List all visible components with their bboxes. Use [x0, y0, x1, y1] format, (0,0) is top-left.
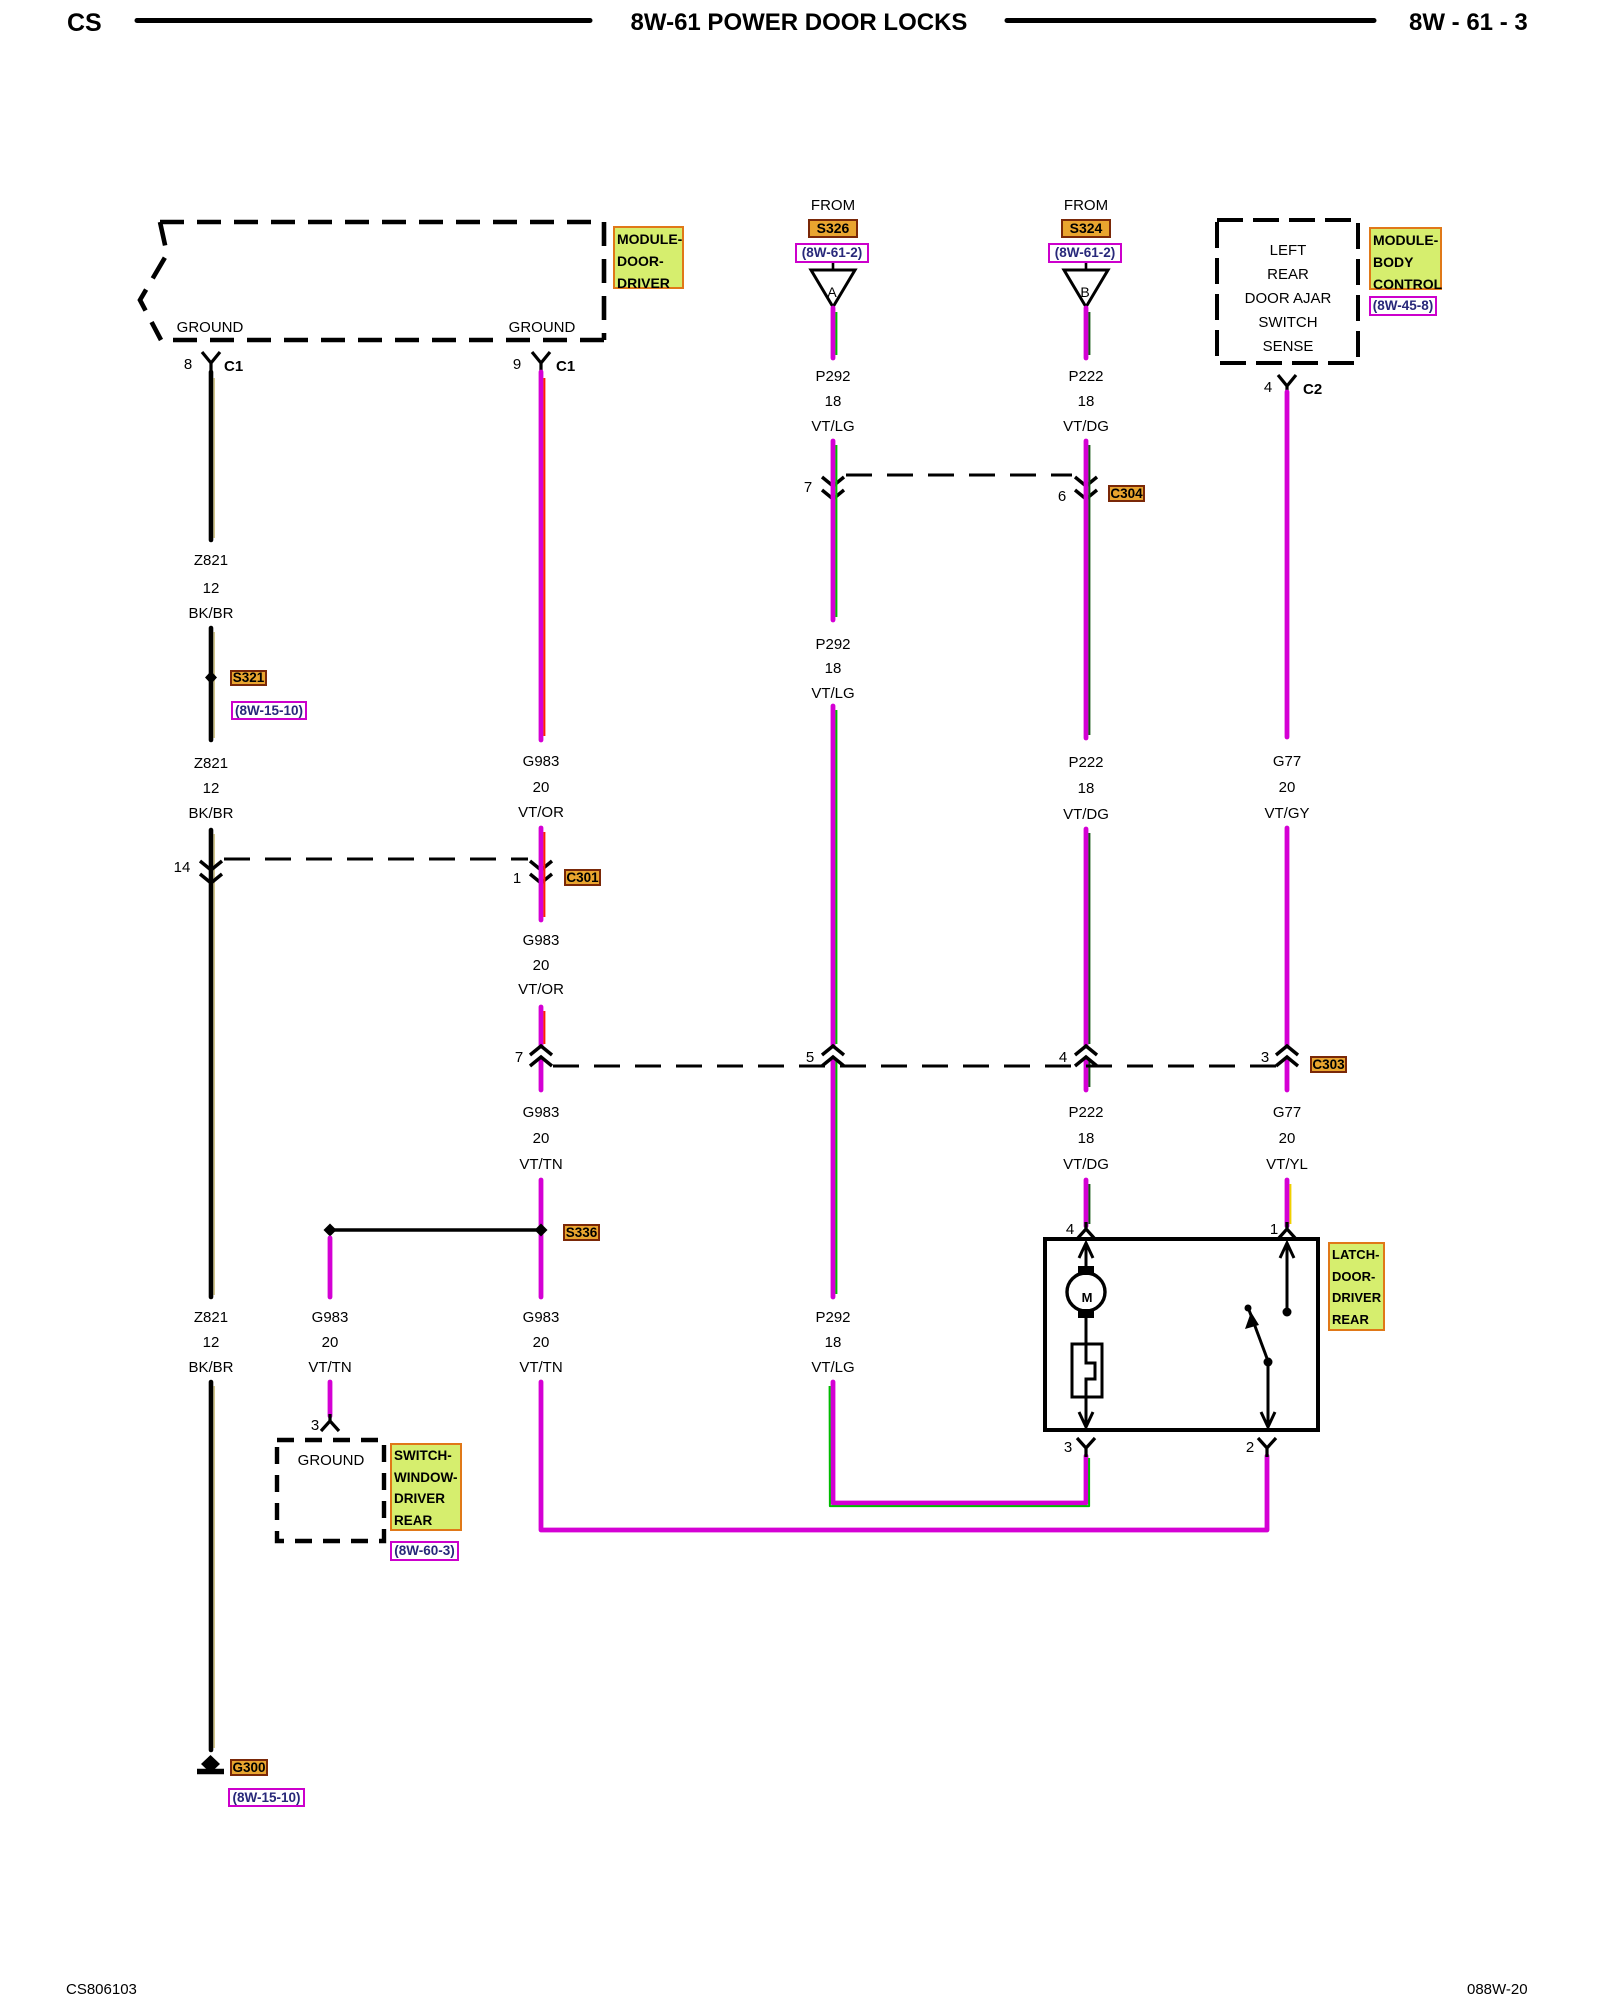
switch window page ref — [390, 1541, 459, 1561]
motor to thermal element wire — [1085, 1318, 1088, 1344]
wire G983 VT/OR pin9 down — [539, 372, 544, 740]
wire label G77 group1 — [1273, 754, 1301, 770]
wire G983 VT/OR through C301 — [539, 828, 544, 920]
latch pin 4 number — [1066, 1222, 1074, 1238]
wire P222 label to C303 — [1084, 829, 1089, 1090]
connector C303 pin4 chevrons — [1075, 1046, 1097, 1066]
FROM S326 text — [811, 198, 855, 214]
wire label G983 group1 — [523, 754, 560, 770]
wire P222 C304 to label — [1084, 441, 1089, 738]
header page number — [1409, 10, 1528, 35]
wire label G983 group3 — [523, 1105, 560, 1121]
wire label Z821 group2 — [194, 756, 228, 772]
module door driver dashed box — [140, 222, 604, 340]
wire label P292 group2 — [815, 637, 850, 653]
wire G77 VT/YL to latch pin1 — [1285, 1180, 1290, 1226]
ground G300 symbol — [201, 1755, 220, 1773]
connector 14 chevrons — [200, 861, 222, 883]
connector C304 pin7 number — [804, 480, 812, 496]
dashed line connector C304 — [846, 474, 1072, 477]
module body control label — [1369, 227, 1442, 290]
wire Z821 below label to S321 splice — [209, 628, 214, 740]
wire P292 label to C303 — [831, 706, 836, 1297]
wire label P222 group2 — [1068, 755, 1103, 771]
wire label P222 group1 — [1068, 369, 1103, 385]
connector C303 pin7 chevrons — [530, 1046, 552, 1066]
wire label G77 group2 — [1273, 1105, 1301, 1121]
motor M top terminal — [1078, 1266, 1094, 1275]
connector C304 label — [1108, 485, 1145, 502]
splice S321 label — [230, 670, 267, 686]
S324 label — [1061, 219, 1111, 238]
footer right — [1467, 1982, 1528, 1998]
triangle A from S326 — [832, 262, 835, 270]
latch switch to pin2 arrow down — [1261, 1362, 1275, 1427]
body control box text — [1270, 243, 1307, 259]
connector C303 pin4 number — [1059, 1050, 1067, 1066]
connector C301 pin1 number — [513, 871, 521, 887]
footer left — [66, 1982, 137, 1998]
connector pin 9 C1 symbol — [532, 352, 550, 373]
header rule left — [137, 18, 590, 23]
triangle A letter — [827, 284, 836, 300]
splice S336 bar — [330, 1228, 541, 1231]
wire G983 VT/TN to splice S336 — [539, 1180, 544, 1297]
wire label P292 group3 — [815, 1310, 850, 1326]
wire label Z821 group1 — [194, 553, 228, 569]
module body control dashed box — [1217, 220, 1358, 363]
pin 9 C1 — [556, 359, 575, 375]
header rule right — [1007, 18, 1374, 23]
latch pin1 internal line arrow up — [1280, 1243, 1294, 1310]
connector 14 number — [174, 860, 191, 876]
connector C303 pin3 number — [1261, 1050, 1269, 1066]
connector C304 pin6 number — [1058, 489, 1066, 505]
S326 page ref — [795, 243, 869, 263]
latch pin 1 connector symbol — [1278, 1222, 1296, 1239]
latch switch pivot dot — [1264, 1358, 1273, 1367]
motor M circle — [1067, 1273, 1105, 1311]
pin 8 number — [184, 357, 192, 373]
wire Z821 to connector 14 — [209, 830, 214, 1297]
wire label P292 group1 — [815, 369, 850, 385]
wire label P222 group3 — [1068, 1105, 1103, 1121]
wire G983 VT/TN S336 to pin2 latch — [541, 1382, 1267, 1530]
thermal protector internal step — [1086, 1344, 1095, 1397]
wire P292 to latch pin3 — [833, 1382, 1086, 1503]
G300 page ref — [228, 1788, 305, 1807]
motor M bottom terminal — [1078, 1309, 1094, 1318]
latch pin 3 number — [1064, 1440, 1072, 1456]
latch pin 2 connector symbol — [1258, 1438, 1276, 1457]
S326 label — [808, 219, 858, 238]
wire label Z821 group3 — [194, 1310, 228, 1326]
wire G983 VT/OR to C303 — [539, 1007, 544, 1090]
pin C2 label — [1303, 382, 1322, 398]
header title — [631, 10, 968, 35]
latch pin 2 number — [1246, 1440, 1254, 1456]
wire G983 branch below S336 — [328, 1238, 333, 1297]
motor letter M — [1082, 1290, 1093, 1306]
latch door driver rear label — [1328, 1242, 1385, 1331]
connector C301 pin1 chevrons — [530, 861, 552, 883]
connector C304 pin7 chevrons — [822, 477, 844, 499]
window switch pin 3 number — [311, 1418, 319, 1434]
wire label G983 group4 — [523, 1310, 560, 1326]
connector C303 label — [1310, 1056, 1347, 1073]
wire Z821 to ground G300 — [209, 1382, 214, 1750]
pin 9 number — [513, 357, 521, 373]
S321 page ref — [231, 701, 307, 720]
wire P292 stub below triangle A — [831, 308, 836, 358]
splice S336 diamond right — [535, 1224, 548, 1237]
window switch ground text — [298, 1453, 365, 1469]
latch motor branch arrow up — [1079, 1243, 1093, 1267]
dashed line connector C301 — [224, 858, 528, 861]
triangle B letter — [1080, 284, 1089, 300]
switch window driver rear label — [390, 1443, 462, 1531]
dashed line connector C303 — [553, 1065, 1282, 1068]
thermal protector box — [1072, 1344, 1102, 1397]
wire Z821 pin8 to splice S321 — [209, 372, 214, 540]
module body control page ref — [1369, 296, 1437, 316]
S324 page ref — [1048, 243, 1122, 263]
FROM S324 text — [1064, 198, 1108, 214]
wire P292 C304 to label — [831, 441, 836, 620]
ground text right — [509, 320, 576, 336]
latch switch blade — [1249, 1310, 1268, 1361]
latch pin1 contact dot — [1283, 1308, 1292, 1317]
connector C303 pin5 chevrons — [822, 1046, 844, 1066]
wire label G983 branch — [312, 1310, 349, 1326]
wire label G983 group2 — [523, 933, 560, 949]
pin 8 C1 — [224, 359, 243, 375]
connector pin 4 C2 symbol — [1278, 375, 1296, 395]
connector C303 pin7 number — [515, 1050, 523, 1066]
pin 4 C2 number — [1264, 380, 1272, 396]
latch pin 3 connector symbol — [1077, 1438, 1095, 1457]
latch motor branch arrow down — [1079, 1397, 1093, 1427]
splice S336 label — [563, 1224, 600, 1241]
triangle B from S324 — [1085, 262, 1088, 270]
ground G300 label — [230, 1759, 268, 1776]
latch pin 4 connector symbol — [1077, 1222, 1095, 1239]
splice S336 diamond left — [324, 1224, 337, 1237]
header CS — [67, 10, 102, 36]
latch pin 1 number — [1270, 1222, 1278, 1238]
connector C303 pin3 chevrons — [1276, 1046, 1298, 1066]
switch window driver rear dashed ground box — [277, 1440, 384, 1541]
latch door driver rear box — [1045, 1239, 1318, 1430]
connector C304 pin6 chevrons — [1075, 477, 1097, 499]
connector pin 8 C1 symbol — [202, 352, 220, 373]
wire G77 VT/GY to C303 — [1285, 828, 1290, 1090]
module door driver label — [613, 226, 684, 289]
wire P222 to latch pin4 — [1084, 1180, 1089, 1226]
connector pin 3 window switch symbol — [321, 1414, 339, 1431]
wire G983 branch to window switch — [328, 1382, 333, 1416]
splice S321 diamond — [205, 671, 217, 684]
connector C301 label — [564, 869, 601, 886]
ground text left — [177, 320, 244, 336]
connector C303 pin5 number — [806, 1050, 814, 1066]
wire P222 stub below triangle B — [1084, 308, 1089, 358]
wire G77 VT/GY from C2 — [1285, 392, 1290, 737]
